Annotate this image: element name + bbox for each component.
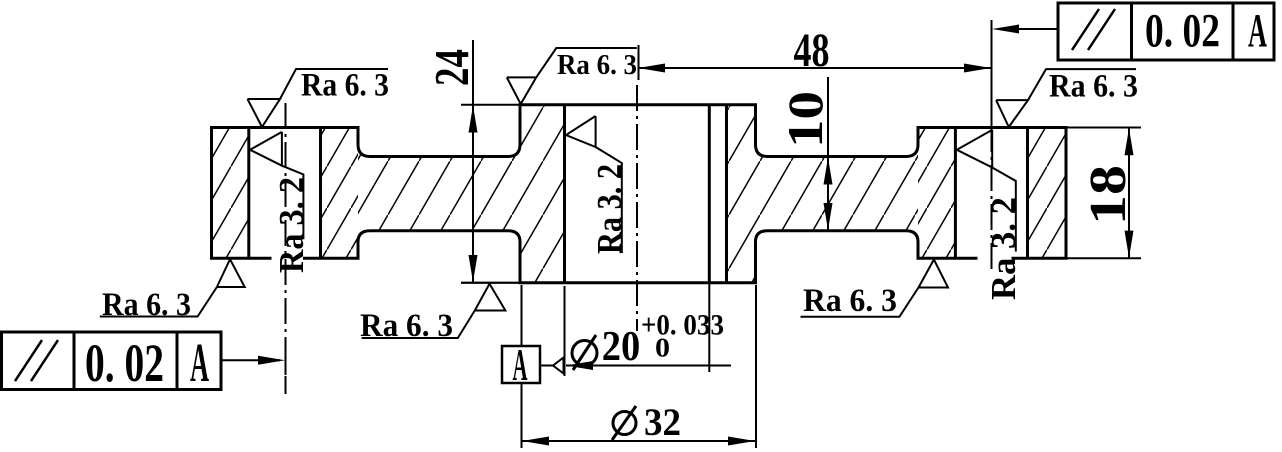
svg-text:Ra 3. 2: Ra 3. 2: [272, 177, 311, 273]
roughness Ra 3.2 right rim hole (rotated): [957, 130, 1016, 252]
dimension diameter 32: [522, 285, 757, 448]
roughness Ra 6.3 bottom-right: [801, 260, 949, 317]
roughness Ra 6.3 top-right: [996, 69, 1136, 127]
svg-text:0. 02: 0. 02: [1145, 5, 1220, 58]
dimension 18 (vertical, rotated text): [1067, 128, 1141, 259]
right rim hole (white): [955, 126, 1027, 260]
right rim hatch: [918, 128, 1066, 259]
svg-text:+0. 033: +0. 033: [641, 309, 724, 342]
right hole axis (dash-dot): [991, 126, 993, 273]
text mask left rim Ra3.2: [272, 175, 304, 287]
svg-text:48: 48: [794, 24, 830, 77]
svg-text:10: 10: [777, 91, 833, 148]
keyway bottom line: [725, 105, 728, 283]
part section outline (hatched): [212, 103, 1067, 284]
roughness Ra 3.2 bore (rotated): [566, 116, 622, 253]
dimension diameter 20 +0.033/0: [565, 283, 732, 376]
svg-text:A: A: [190, 332, 209, 393]
datum A symbol: [502, 346, 540, 383]
svg-text:Ra 3. 2: Ra 3. 2: [984, 197, 1023, 300]
dimension 48: [638, 45, 991, 80]
svg-text:0. 02: 0. 02: [85, 333, 164, 393]
left rim hatch: [212, 128, 359, 259]
left rim hole (white): [249, 126, 321, 260]
svg-text:Ra 6. 3: Ra 6. 3: [102, 287, 191, 323]
roughness Ra 3.2 left rim hole (rotated): [250, 132, 303, 239]
svg-text:A: A: [513, 339, 528, 390]
svg-text:Ra 6. 3: Ra 6. 3: [1049, 68, 1138, 104]
svg-text:0: 0: [655, 333, 670, 363]
parallelism frame top-right: [1058, 3, 1274, 60]
parallelism frame bottom-left: [2, 332, 222, 390]
outline stroke: [212, 105, 1067, 283]
left hole axis (dash-dot): [285, 103, 287, 394]
roughness Ra 6.3 bottom-middle: [362, 283, 519, 338]
svg-text:Ra 6. 3: Ra 6. 3: [557, 49, 637, 81]
svg-text:A: A: [1248, 5, 1267, 58]
svg-text:32: 32: [644, 401, 681, 444]
svg-text:Ra 6. 3: Ra 6. 3: [360, 308, 453, 344]
svg-text:20: 20: [602, 324, 641, 370]
dimension 10 (vertical, rotated text): [827, 77, 829, 231]
roughness Ra 6.3 top-left: [248, 69, 389, 127]
left rim hole edge lines: [247, 128, 250, 259]
diameter symbol of D20: [572, 335, 597, 370]
svg-text:Ra 6. 3: Ra 6. 3: [301, 68, 389, 104]
solid segment of left hole axis at frame arrow: [285, 345, 287, 375]
right rim hole edge lines: [954, 128, 957, 259]
svg-text:Ra 3. 2: Ra 3. 2: [590, 164, 629, 254]
centre axis (dash-dot): [636, 85, 638, 331]
bore edge lines: [563, 105, 566, 283]
roughness Ra 6.3 bottom-left: [100, 259, 245, 316]
central bore + keyway (white): [565, 103, 727, 284]
text mask right rim Ra3.2: [978, 191, 1012, 301]
right hole axis solid upper part: [991, 20, 993, 128]
svg-text:24: 24: [424, 49, 479, 86]
svg-text:Ra 6. 3: Ra 6. 3: [803, 283, 897, 319]
roughness Ra 6.3 top-middle: [507, 48, 637, 104]
svg-text:18: 18: [1080, 165, 1137, 225]
dimension 24 (vertical, rotated text): [461, 40, 519, 283]
